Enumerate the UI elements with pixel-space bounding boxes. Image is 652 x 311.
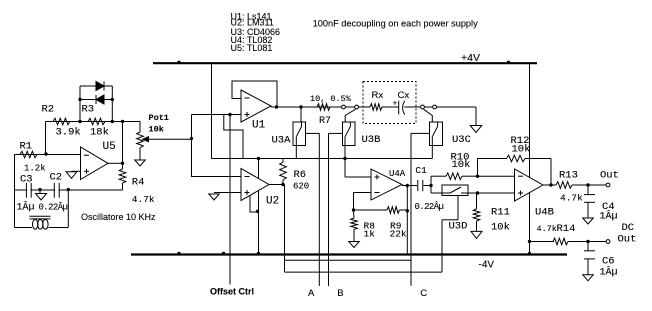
svg-text:Oscillatore 10 KHz: Oscillatore 10 KHz — [81, 212, 156, 222]
svg-text:1Âµ: 1Âµ — [17, 200, 35, 214]
svg-text:Offset Ctrl: Offset Ctrl — [210, 287, 254, 297]
svg-text:C3: C3 — [20, 174, 33, 186]
svg-text:4.7k: 4.7k — [132, 194, 155, 205]
svg-text:A: A — [308, 288, 315, 299]
svg-text:U1: U1 — [252, 120, 266, 132]
svg-text:U4B: U4B — [535, 207, 554, 219]
svg-text:C6: C6 — [602, 256, 615, 268]
svg-text:100nF decoupling on each power: 100nF decoupling on each power supply — [313, 19, 478, 29]
svg-text:Rx: Rx — [372, 90, 384, 101]
svg-text:R3: R3 — [82, 104, 95, 116]
svg-text:R6: R6 — [294, 169, 307, 181]
svg-text:18k: 18k — [90, 127, 109, 139]
svg-text:10k: 10k — [512, 144, 531, 156]
svg-text:R1: R1 — [20, 141, 33, 153]
svg-text:1.2k: 1.2k — [24, 164, 46, 174]
svg-text:+: + — [393, 100, 398, 109]
svg-text:Out: Out — [618, 233, 637, 245]
svg-text:U5: TL081: U5: TL081 — [231, 43, 273, 53]
svg-text:4.7k: 4.7k — [537, 224, 557, 234]
svg-text:10k: 10k — [491, 221, 510, 233]
svg-text:B: B — [337, 288, 343, 299]
svg-text:10k: 10k — [452, 159, 471, 171]
svg-text:1Âµ: 1Âµ — [600, 209, 618, 223]
svg-text:22k: 22k — [390, 229, 407, 240]
svg-text:Cx: Cx — [398, 90, 410, 101]
svg-text:C2: C2 — [50, 172, 63, 184]
svg-text:R2: R2 — [42, 104, 55, 116]
svg-text:Out: Out — [600, 170, 619, 182]
svg-text:1Âµ: 1Âµ — [600, 265, 618, 279]
svg-text:620: 620 — [293, 182, 309, 192]
svg-text:10k: 10k — [149, 125, 164, 135]
svg-text:C1: C1 — [415, 165, 427, 176]
svg-text:U4A: U4A — [389, 169, 406, 179]
svg-text:3.9k: 3.9k — [56, 127, 81, 139]
svg-text:U3D: U3D — [449, 221, 468, 233]
svg-text:U5: U5 — [103, 141, 116, 153]
svg-text:1k: 1k — [364, 229, 376, 240]
svg-text:U3A: U3A — [272, 135, 292, 147]
svg-text:C: C — [420, 288, 427, 299]
svg-text:U2: U2 — [266, 196, 279, 208]
svg-text:U3B: U3B — [362, 134, 381, 146]
svg-text:10, 0.5%: 10, 0.5% — [310, 94, 352, 104]
svg-text:R4: R4 — [132, 177, 145, 189]
svg-text:0.22Âµ: 0.22Âµ — [39, 202, 68, 213]
svg-text:DC: DC — [622, 222, 635, 234]
svg-text:R7: R7 — [319, 116, 331, 127]
svg-text:U3C: U3C — [452, 134, 471, 146]
svg-text:R14: R14 — [557, 223, 576, 235]
svg-text:-4V: -4V — [479, 260, 495, 271]
svg-text:+4V: +4V — [461, 52, 480, 64]
svg-text:4.7k: 4.7k — [560, 193, 583, 204]
svg-text:R13: R13 — [559, 170, 578, 182]
svg-text:0.22Âµ: 0.22Âµ — [415, 201, 444, 212]
svg-text:R11: R11 — [491, 207, 510, 219]
svg-text:Pot1: Pot1 — [149, 113, 169, 123]
